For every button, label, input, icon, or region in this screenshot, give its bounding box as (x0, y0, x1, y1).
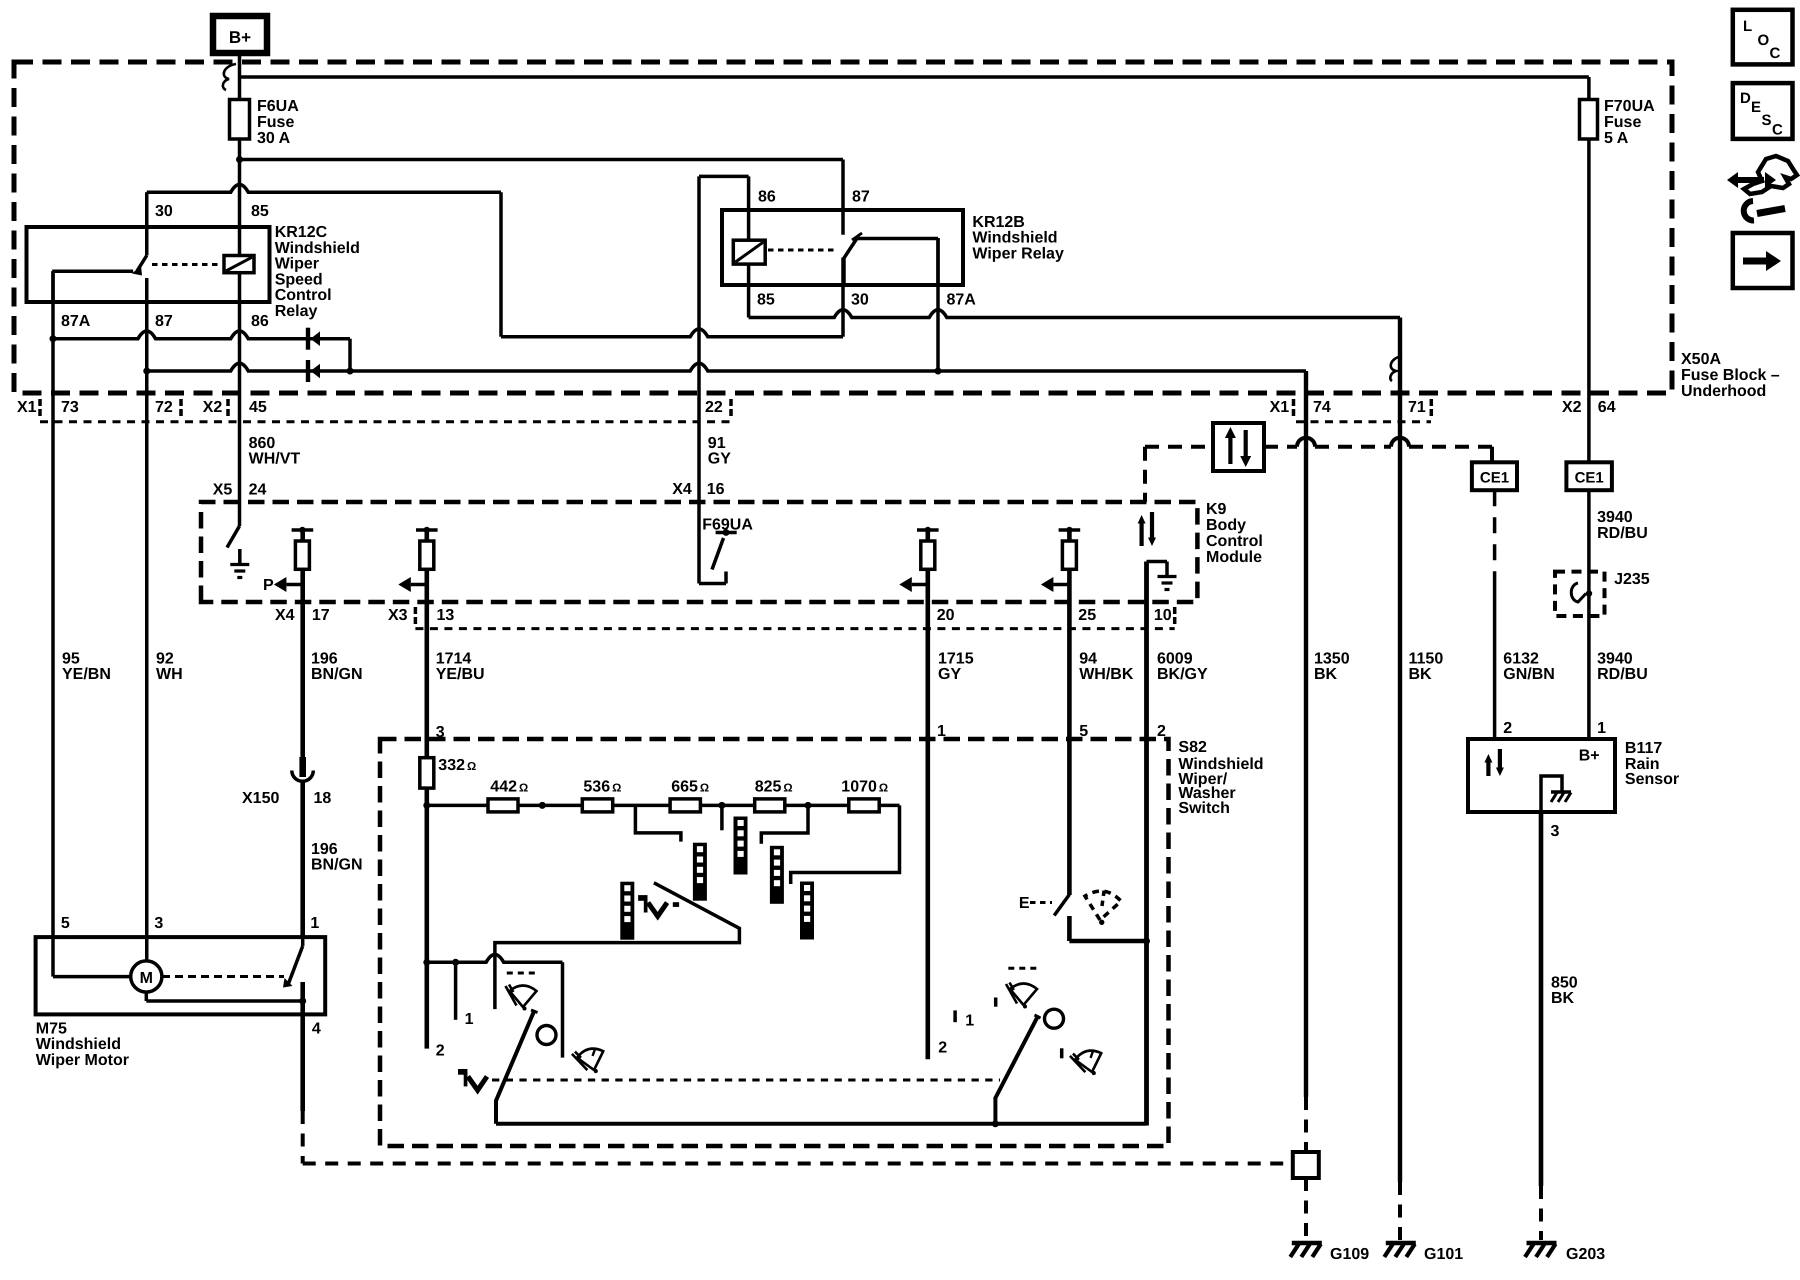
svg-text:J235: J235 (1614, 571, 1650, 588)
svg-text:3940: 3940 (1597, 651, 1633, 668)
svg-text:Control: Control (275, 287, 332, 304)
svg-text:Control: Control (1206, 533, 1263, 550)
svg-text:10: 10 (1154, 607, 1172, 624)
svg-text:RD/BU: RD/BU (1597, 525, 1648, 542)
svg-text:86: 86 (251, 313, 269, 330)
svg-text:D: D (1740, 90, 1751, 107)
svg-text:30 A: 30 A (257, 130, 291, 147)
svg-text:X4: X4 (672, 481, 692, 498)
svg-text:WH: WH (156, 666, 183, 683)
svg-text:3: 3 (154, 915, 163, 932)
svg-text:E: E (1019, 895, 1030, 912)
svg-text:X1: X1 (17, 399, 37, 416)
svg-text:Wiper Motor: Wiper Motor (36, 1052, 129, 1069)
svg-text:3: 3 (1551, 823, 1560, 840)
svg-text:5 A: 5 A (1604, 130, 1629, 147)
svg-text:L: L (1743, 18, 1752, 35)
svg-text:Switch: Switch (1178, 800, 1230, 817)
svg-text:91: 91 (708, 435, 726, 452)
svg-text:P: P (263, 577, 274, 594)
svg-text:C: C (1772, 122, 1783, 139)
svg-text:4: 4 (312, 1020, 321, 1037)
svg-text:16: 16 (707, 481, 725, 498)
svg-text:1: 1 (465, 1011, 474, 1028)
svg-text:G101: G101 (1424, 1246, 1463, 1263)
svg-text:2: 2 (1157, 723, 1166, 740)
svg-text:20: 20 (937, 607, 955, 624)
svg-text:5: 5 (1079, 723, 1088, 740)
svg-text:30: 30 (155, 203, 173, 220)
svg-text:Underhood: Underhood (1681, 383, 1766, 400)
svg-text:BK: BK (1409, 666, 1433, 683)
svg-text:BK: BK (1551, 990, 1575, 1007)
svg-text:B117: B117 (1625, 740, 1662, 757)
svg-text:1714: 1714 (436, 651, 472, 668)
svg-text:X5: X5 (213, 482, 233, 499)
svg-text:BK: BK (1314, 666, 1338, 683)
svg-text:6009: 6009 (1157, 651, 1193, 668)
svg-text:74: 74 (1313, 399, 1331, 416)
svg-text:1150: 1150 (1409, 651, 1444, 668)
svg-text:24: 24 (249, 482, 267, 499)
svg-text:87A: 87A (61, 313, 91, 330)
svg-text:860: 860 (249, 435, 276, 452)
svg-text:Wiper Relay: Wiper Relay (972, 245, 1064, 262)
svg-text:X3: X3 (388, 607, 408, 624)
svg-text:2: 2 (436, 1043, 445, 1060)
svg-text:Speed: Speed (275, 271, 323, 288)
svg-text:Fuse Block –: Fuse Block – (1681, 367, 1780, 384)
svg-text:1350: 1350 (1314, 651, 1350, 668)
svg-text:X1: X1 (1270, 399, 1290, 416)
svg-text:GN/BN: GN/BN (1503, 666, 1555, 683)
svg-text:85: 85 (757, 292, 775, 309)
svg-text:3940: 3940 (1597, 509, 1633, 526)
svg-text:73: 73 (61, 399, 79, 416)
svg-text:1: 1 (1597, 720, 1606, 737)
svg-text:Windshield: Windshield (972, 230, 1057, 247)
svg-text:GY: GY (708, 451, 731, 468)
svg-text:M: M (140, 970, 153, 987)
svg-text:850: 850 (1551, 975, 1578, 992)
svg-text:F70UA: F70UA (1604, 98, 1655, 115)
svg-text:WH/BK: WH/BK (1079, 666, 1134, 683)
svg-text:E: E (1751, 99, 1761, 116)
svg-text:71: 71 (1408, 399, 1426, 416)
svg-text:B+: B+ (229, 28, 251, 47)
svg-text:Module: Module (1206, 549, 1262, 566)
svg-text:Fuse: Fuse (1604, 114, 1641, 131)
svg-text:CE1: CE1 (1575, 469, 1604, 486)
svg-text:1: 1 (965, 1012, 974, 1029)
svg-text:BN/GN: BN/GN (311, 666, 363, 683)
svg-text:M75: M75 (36, 1020, 67, 1037)
svg-text:YE/BU: YE/BU (436, 666, 485, 683)
svg-text:Sensor: Sensor (1625, 771, 1679, 788)
svg-text:O: O (1758, 32, 1770, 49)
svg-text:196: 196 (311, 841, 338, 858)
svg-text:13: 13 (437, 607, 455, 624)
svg-text:17: 17 (312, 607, 330, 624)
svg-text:CE1: CE1 (1480, 469, 1509, 486)
svg-text:94: 94 (1079, 651, 1097, 668)
svg-text:BN/GN: BN/GN (311, 857, 363, 874)
svg-text:1: 1 (937, 723, 946, 740)
svg-text:X2: X2 (1562, 399, 1582, 416)
svg-text:Windshield: Windshield (36, 1036, 121, 1053)
svg-text:B+: B+ (1579, 747, 1600, 764)
svg-text:1715: 1715 (938, 651, 974, 668)
svg-text:X2: X2 (203, 399, 223, 416)
svg-text:2: 2 (1503, 720, 1512, 737)
svg-text:87: 87 (155, 313, 173, 330)
svg-text:Fuse: Fuse (257, 114, 294, 131)
svg-text:C: C (1770, 45, 1781, 62)
svg-text:87: 87 (852, 189, 870, 206)
svg-text:YE/BN: YE/BN (62, 666, 111, 683)
svg-text:2: 2 (938, 1039, 947, 1056)
svg-text:X4: X4 (275, 607, 295, 624)
svg-text:F6UA: F6UA (257, 98, 299, 115)
svg-text:Wiper: Wiper (275, 256, 319, 273)
svg-text:KR12C: KR12C (275, 224, 328, 241)
svg-text:25: 25 (1078, 607, 1096, 624)
svg-text:72: 72 (155, 399, 173, 416)
svg-text:64: 64 (1598, 399, 1616, 416)
svg-text:G109: G109 (1330, 1246, 1369, 1263)
svg-text:RD/BU: RD/BU (1597, 666, 1648, 683)
svg-text:18: 18 (314, 790, 332, 807)
svg-text:6132: 6132 (1503, 651, 1539, 668)
svg-text:G203: G203 (1566, 1246, 1605, 1263)
svg-text:GY: GY (938, 666, 961, 683)
svg-text:BK/GY: BK/GY (1157, 666, 1208, 683)
svg-text:WH/VT: WH/VT (249, 451, 301, 468)
svg-text:1: 1 (310, 915, 319, 932)
svg-text:K9: K9 (1206, 501, 1227, 518)
svg-text:X150: X150 (242, 790, 279, 807)
svg-text:196: 196 (311, 651, 338, 668)
svg-text:S82: S82 (1178, 739, 1207, 756)
svg-text:3: 3 (436, 724, 445, 741)
svg-text:86: 86 (758, 189, 776, 206)
svg-text:Body: Body (1206, 517, 1246, 534)
svg-text:Relay: Relay (275, 303, 318, 320)
svg-text:5: 5 (61, 915, 70, 932)
svg-text:45: 45 (249, 399, 267, 416)
svg-text:22: 22 (705, 399, 723, 416)
svg-text:95: 95 (62, 651, 80, 668)
svg-text:92: 92 (156, 651, 174, 668)
svg-text:30: 30 (851, 292, 869, 309)
svg-text:87A: 87A (947, 292, 977, 309)
svg-text:KR12B: KR12B (972, 214, 1024, 231)
svg-text:85: 85 (251, 203, 269, 220)
svg-text:Windshield: Windshield (275, 240, 360, 257)
svg-text:X50A: X50A (1681, 351, 1721, 368)
svg-text:S: S (1762, 112, 1772, 129)
